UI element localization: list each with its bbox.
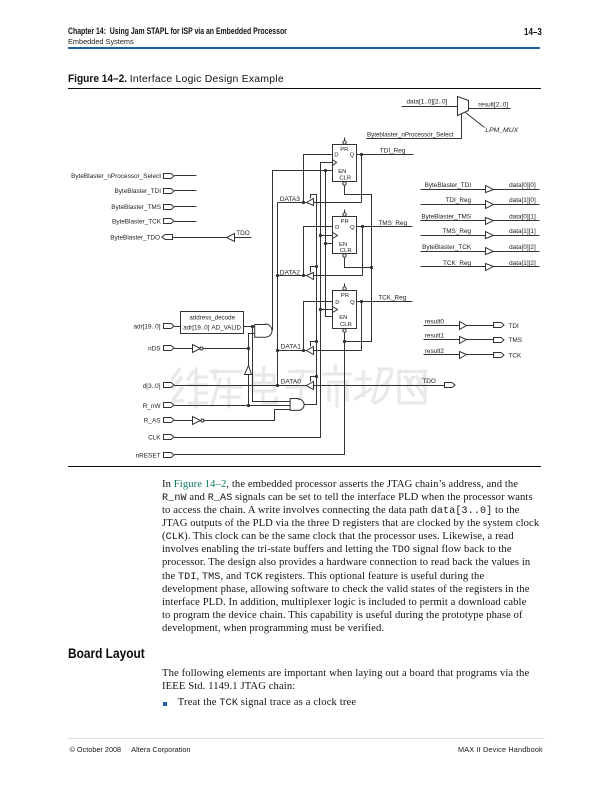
node CLK reg3 junction [319, 308, 322, 311]
svg-text:TDI_Reg: TDI_Reg [380, 147, 406, 154]
node DATA0 enable junction [315, 375, 318, 378]
input pin nDS [164, 346, 175, 351]
wire U1 Q feedback down [361, 155, 363, 203]
node CLK reg2 junction [319, 234, 322, 237]
wire EN feed up and right to registers [273, 171, 333, 331]
paragraph 2 [162, 667, 557, 693]
wire row5 ByteBlaster_TCK to buffer [421, 251, 486, 253]
bullet square [163, 702, 168, 707]
output pin TDI [494, 323, 505, 328]
and-gate U7 (write strobe) [255, 324, 272, 337]
wire data[1..0][2..0] into mux [402, 106, 458, 108]
node DATA2 enable junction [315, 265, 318, 268]
node U3 Q junction [360, 300, 363, 303]
output pin TCK [494, 353, 505, 358]
input pin nRESET [164, 453, 175, 458]
svg-text:data[1..0][2..0]: data[1..0][2..0] [407, 98, 448, 105]
svg-text:adr[19..0]: adr[19..0] [133, 323, 160, 330]
footer left [70, 745, 191, 754]
node U1 Q junction [360, 153, 363, 156]
Board Layout heading [68, 645, 158, 661]
svg-text:CLK: CLK [148, 435, 161, 442]
svg-text:CLR: CLR [340, 248, 352, 254]
node DATA2 D junction [302, 274, 305, 277]
header page number [524, 27, 546, 38]
wire result1 to buffer [424, 339, 460, 341]
wire nRESET to CLR rail [175, 333, 345, 455]
node EN reg2 junction [324, 242, 327, 245]
wire row1 ByteBlaster_TDI to buffer [421, 189, 486, 191]
buffer U6 (R_nW, points up) [245, 366, 252, 375]
tri-state buffer U10 (DATA3) [307, 199, 314, 206]
svg-text:d[3..0]: d[3..0] [143, 383, 161, 390]
input pin ByteBlaster_TMS [164, 205, 175, 210]
svg-text:result[2..0]: result[2..0] [478, 102, 508, 109]
input pin ByteBlaster_TCK [164, 219, 175, 224]
svg-text:result2: result2 [425, 348, 445, 355]
svg-text:CLR: CLR [340, 322, 352, 328]
buffer U20 result0 [460, 322, 467, 330]
output pin TDO (right) [445, 383, 456, 388]
wire U1 Q output TDI_Reg [357, 154, 414, 156]
footer right [458, 745, 543, 754]
svg-text:DATA0: DATA0 [281, 378, 302, 385]
svg-text:Q: Q [350, 225, 355, 231]
mux U4 LPM_MUX [458, 97, 469, 116]
svg-text:ByteBlaster_TCK: ByteBlaster_TCK [422, 244, 472, 251]
svg-text:Q: Q [350, 153, 355, 159]
wire DATA3 tri-state input [314, 202, 362, 204]
svg-text:data[0][1]: data[0][1] [509, 214, 536, 221]
wire DATA2 enable hook [311, 267, 317, 273]
svg-text:ByteBlaster_TDO: ByteBlaster_TDO [110, 234, 160, 241]
node EN reg1 junction [324, 169, 327, 172]
svg-text:CLR: CLR [339, 176, 351, 182]
node DATA1 enable junction [315, 340, 318, 343]
svg-text:ByteBlaster_TMS: ByteBlaster_TMS [111, 204, 161, 211]
wire U1 D input from DATA3 [304, 155, 333, 203]
wire R_AS inverted to read AND gate [205, 410, 291, 421]
svg-text:TCK: TCK [509, 352, 523, 359]
wire row3 data[0][1] [494, 220, 540, 222]
node AD_VALID junction [251, 325, 254, 328]
svg-text:ByteBlaster_nProcessor_Select: ByteBlaster_nProcessor_Select [71, 173, 161, 180]
wire row6 data[1][2] [494, 266, 540, 268]
wire row4 data[1][1] [494, 235, 540, 237]
figure caption rule [68, 88, 541, 89]
wire tri-state enable rail [305, 195, 317, 405]
svg-text:address_decode: address_decode [189, 315, 235, 322]
callout line LPM_MUX [466, 113, 485, 128]
svg-text:EN: EN [338, 169, 346, 175]
svg-text:Byteblaster_nProcessor_Select: Byteblaster_nProcessor_Select [367, 132, 454, 139]
buffer U21 result1 [460, 337, 467, 344]
wire U2 Q output TMS_Reg [357, 226, 413, 228]
node CLR junction at reg3 [343, 340, 346, 343]
buffer U16 row3 [486, 218, 494, 225]
wire DATA1 enable hook [311, 342, 317, 347]
svg-text:result1: result1 [425, 333, 445, 340]
wire DATA3 line [278, 202, 307, 204]
input pin CLK [164, 435, 175, 440]
wire row2 TDI_Reg to buffer [421, 204, 486, 206]
svg-text:Q: Q [350, 300, 355, 306]
svg-text:data[1][2]: data[1][2] [509, 260, 536, 267]
buffer U19 row6 [486, 264, 494, 271]
wire DATA2 tri-state input [314, 275, 363, 277]
tri-state buffer U11 (DATA2) [307, 273, 314, 280]
body paragraph [162, 478, 557, 635]
wire result[2..0] from mux [469, 108, 511, 110]
svg-text:LPM_MUX: LPM_MUX [485, 127, 518, 134]
node U2 Q junction [361, 225, 364, 228]
inverter U5 (nDS) [193, 345, 201, 353]
bullet text [178, 696, 356, 709]
buffer U15 row2 [486, 201, 494, 209]
svg-text:TMS: TMS [509, 337, 523, 344]
svg-text:nRESET: nRESET [136, 452, 161, 459]
wire CLK into reg2 [321, 235, 333, 237]
wire U3 D input from DATA1 [304, 302, 333, 351]
wire nDS inverted to write-enable node [204, 348, 249, 350]
watermark (light CJK-style marks) [173, 366, 426, 408]
wire U2 Q feedback down [362, 227, 364, 276]
wire result0 to buffer [424, 325, 460, 327]
input pin R_AS [164, 418, 175, 423]
tri-state buffer U12 (DATA1) [307, 347, 314, 355]
node DATA1 D junction [302, 349, 305, 352]
inverter U8 (R_AS) [193, 417, 201, 425]
node DATA3 D junction [302, 201, 305, 204]
svg-text:TDI: TDI [509, 323, 520, 330]
register U2 TMS_Reg (DFF) [333, 217, 357, 254]
node CLR junction at reg2 [370, 266, 373, 269]
svg-text:EN: EN [339, 315, 347, 321]
node R_nW junction [247, 404, 250, 407]
svg-text:nDS: nDS [148, 346, 160, 353]
wire data bus riser [277, 203, 279, 386]
wire CLK rail [175, 163, 333, 438]
header chapter title [68, 26, 347, 36]
wire DATA0 enable hook [311, 377, 317, 382]
input pin ByteBlaster_TDI [164, 189, 175, 194]
wire DATA2 line [278, 275, 307, 277]
svg-text:PR: PR [341, 219, 349, 225]
svg-text:D: D [334, 153, 338, 159]
node DATA0 bus junction [276, 384, 279, 387]
input pin ByteBlaster_nProcessor_Select [164, 174, 175, 179]
output pin TMS [494, 338, 505, 343]
wire CLR branch to rail [345, 185, 372, 342]
svg-text:TDI_Reg: TDI_Reg [446, 197, 472, 204]
wire EN into reg2 [326, 243, 333, 245]
svg-text:TMS_Reg: TMS_Reg [378, 220, 407, 227]
svg-text:AD_VALID: AD_VALID [212, 325, 242, 332]
svg-text:ByteBlaster_TDI: ByteBlaster_TDI [425, 182, 472, 189]
svg-text:TDO: TDO [236, 230, 250, 237]
wire AD_VALID to AND gate [244, 326, 255, 328]
and-gate U9 (read strobe) [290, 399, 304, 411]
header blue rule [68, 47, 540, 49]
svg-text:ByteBlaster_TCK: ByteBlaster_TCK [112, 219, 162, 226]
buffer U17 row4 [486, 232, 494, 239]
wire EN rail down [326, 171, 333, 317]
node nDS junction [247, 347, 250, 350]
header subtitle [68, 37, 134, 46]
svg-text:data[1][0]: data[1][0] [509, 197, 536, 204]
svg-text:D: D [335, 225, 339, 231]
svg-text:DATA3: DATA3 [280, 196, 301, 203]
svg-text:data[0][2]: data[0][2] [509, 244, 536, 251]
svg-text:PR: PR [340, 147, 348, 153]
svg-text:TCK_Reg: TCK_Reg [378, 295, 407, 302]
node DATA2 bus junction [276, 274, 279, 277]
wire U3 Q output TCK_Reg [357, 301, 413, 303]
svg-text:PR: PR [341, 293, 349, 299]
svg-text:R_AS: R_AS [144, 418, 161, 425]
wire row3 ByteBlaster_TMS to buffer [421, 220, 486, 222]
wire write-enable vertical (R_nW / nDS node to AND1 input) [249, 334, 255, 406]
svg-text:DATA1: DATA1 [281, 343, 302, 350]
figure bottom rule [68, 466, 541, 467]
wire row2 data[1][0] [494, 204, 540, 206]
wire CLR from reg2 bubble [345, 258, 372, 268]
wire d[3..0] / DATA0 / TDO line [175, 385, 445, 387]
svg-text:D: D [335, 300, 339, 306]
wire R_nW to read AND gate [175, 405, 291, 407]
wire DATA1 tri-state input [314, 350, 362, 352]
module address_decode [181, 312, 244, 334]
register U1 TDI_Reg (DFF) [333, 145, 357, 182]
svg-text:TDO: TDO [422, 378, 436, 385]
node DATA1 bus junction [276, 349, 279, 352]
buffer U14 row1 [486, 186, 494, 193]
svg-text:TMS_Reg: TMS_Reg [442, 228, 471, 235]
wire DATA1 line [278, 350, 307, 352]
svg-text:adr[19..0]: adr[19..0] [183, 325, 209, 332]
wire U3 Q feedback down [361, 302, 363, 351]
wire row1 data[0][0] [494, 189, 540, 191]
input pin d[3..0] [164, 383, 175, 388]
wire CLK into reg3 [321, 309, 333, 311]
input pin R_nW [164, 403, 175, 408]
input pin adr[19..0] [164, 324, 175, 329]
wire AD_VALID down to read AND gate [253, 327, 291, 402]
wire row4 TMS_Reg to buffer [421, 235, 486, 237]
register U3 TCK_Reg (DFF) [333, 291, 357, 329]
svg-text:R_nW: R_nW [143, 403, 162, 410]
output pin ByteBlaster_TDO [162, 235, 173, 240]
svg-text:ByteBlaster_TMS: ByteBlaster_TMS [421, 214, 471, 221]
footer rule [68, 738, 545, 739]
wire result2 to buffer [424, 354, 460, 356]
svg-text:data[0][0]: data[0][0] [509, 182, 536, 189]
svg-text:result0: result0 [425, 318, 445, 325]
wire row6 TCK_Reg to buffer [421, 266, 486, 268]
SCHEMATIC SVG [0, 0, 612, 475]
svg-text:data[1][1]: data[1][1] [509, 228, 536, 235]
wire mux select [367, 114, 462, 139]
buffer U22 result2 [460, 352, 467, 359]
buffer TDO feeding ByteBlaster_TDO [227, 234, 235, 242]
wire row5 data[0][2] [494, 251, 540, 253]
svg-text:DATA2: DATA2 [280, 270, 301, 277]
wire U2 D input from DATA2 [304, 227, 333, 276]
tri-state buffer U13 (DATA0) [307, 382, 314, 390]
svg-text:TCK_Reg: TCK_Reg [443, 260, 472, 267]
figure caption [68, 73, 132, 85]
buffer U18 row5 [486, 248, 494, 255]
svg-text:ByteBlaster_TDI: ByteBlaster_TDI [114, 188, 161, 195]
